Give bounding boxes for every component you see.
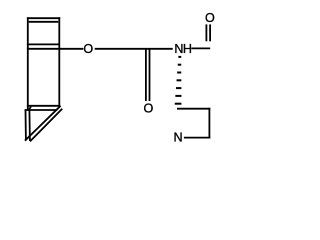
svg-text:O: O	[144, 101, 154, 115]
svg-text:NH: NH	[174, 42, 192, 56]
svg-text:O: O	[83, 42, 93, 56]
svg-text:O: O	[205, 11, 215, 25]
svg-text:N: N	[173, 130, 182, 144]
